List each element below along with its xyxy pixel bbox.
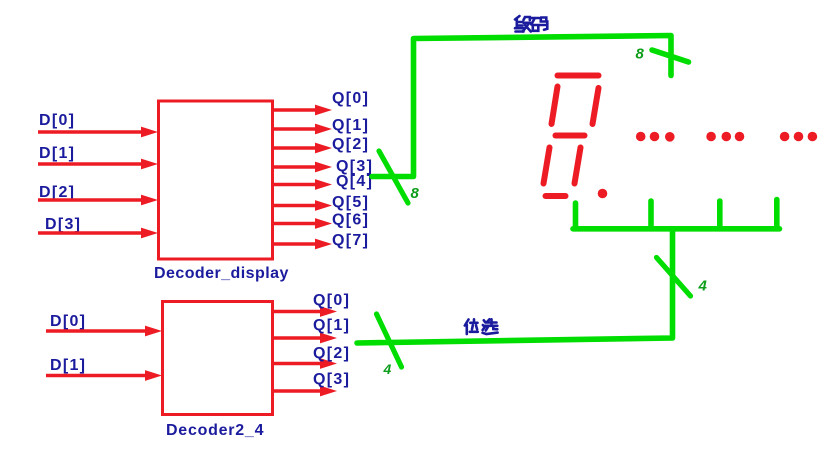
wire D[1] to U2 xyxy=(46,370,162,381)
segment C (lower right) xyxy=(575,148,581,184)
decimal point DP xyxy=(598,189,608,199)
svg-text:Q[5]: Q[5] xyxy=(332,194,369,211)
block U1 Decoder_display xyxy=(159,101,273,259)
bus width slash 4 (left) xyxy=(377,314,402,367)
svg-text:Q[7]: Q[7] xyxy=(332,232,369,249)
svg-text:D[1]: D[1] xyxy=(50,357,86,374)
segment E (lower left) xyxy=(544,148,550,184)
bus width slash 4 (right) xyxy=(657,258,691,297)
svg-text:Q[4]: Q[4] xyxy=(336,173,373,190)
seven-segment display DS1 xyxy=(544,76,599,197)
display common stub 2 xyxy=(648,201,654,229)
wire Q[2] from U1 xyxy=(274,143,332,154)
bit-select collector wire xyxy=(573,226,780,232)
wire Q[0] from U2 xyxy=(274,306,337,317)
svg-text:Q[1]: Q[1] xyxy=(313,317,350,334)
svg-text:Q[0]: Q[0] xyxy=(313,292,350,309)
segment B (upper right) xyxy=(593,88,599,124)
wire Q[6] from U1 xyxy=(274,218,332,229)
wire D[3] to U1 xyxy=(38,228,158,239)
svg-text:Q[6]: Q[6] xyxy=(332,212,369,229)
svg-text:8: 8 xyxy=(411,185,420,202)
bit-select vertical and horizontal run xyxy=(357,229,673,343)
display common stub 3 xyxy=(717,201,723,229)
svg-text:Q[2]: Q[2] xyxy=(332,136,369,153)
wire bit-select bus (U2 outputs to display commons) xyxy=(357,200,780,344)
hanzi wei xyxy=(465,319,478,334)
wire D[0] to U1 xyxy=(38,127,158,138)
svg-text:Q[2]: Q[2] xyxy=(313,345,350,362)
wire Q[2] from U2 xyxy=(274,358,337,369)
wire Q[4] from U1 xyxy=(274,179,332,190)
wire D[0] to U2 xyxy=(46,326,162,337)
svg-text:Decoder_display: Decoder_display xyxy=(154,265,289,282)
wire Q[1] from U2 xyxy=(274,333,337,344)
svg-text:D[0]: D[0] xyxy=(50,313,86,330)
hanzi ma xyxy=(531,18,547,31)
wire Q[3] from U1 xyxy=(274,162,332,173)
label bit-select net xyxy=(465,319,498,334)
svg-text:4: 4 xyxy=(383,361,392,377)
ellipsis dots group 1 (more digits) xyxy=(636,132,675,142)
wire Q[7] from U1 xyxy=(274,239,332,250)
hanzi duan xyxy=(515,16,531,32)
svg-text:Q[3]: Q[3] xyxy=(313,371,350,388)
hanzi xuan xyxy=(483,319,498,334)
ellipsis dots group 3 (more digits) xyxy=(780,132,817,142)
segment D (bottom) xyxy=(546,193,566,199)
svg-text:D[1]: D[1] xyxy=(39,145,75,162)
svg-text:Q[1]: Q[1] xyxy=(332,117,369,134)
block U2 Decoder2_4 xyxy=(163,302,273,415)
wire D[1] to U1 xyxy=(38,159,158,170)
bus width slash 8 (left) xyxy=(379,151,408,203)
label segment-code net xyxy=(515,16,547,32)
wire Q[0] from U1 xyxy=(274,105,332,116)
wire D[2] to U1 xyxy=(38,195,158,206)
display common stub 4 xyxy=(774,200,780,229)
wire Q[1] from U1 xyxy=(274,124,332,135)
display common stub 1 xyxy=(573,203,579,229)
svg-text:Decoder2_4: Decoder2_4 xyxy=(166,422,264,439)
svg-text:8: 8 xyxy=(636,46,645,63)
svg-text:D[3]: D[3] xyxy=(45,216,81,233)
segment A (top) xyxy=(558,73,599,79)
ellipsis dots group 2 (more digits) xyxy=(706,132,744,142)
svg-text:Q[0]: Q[0] xyxy=(332,90,369,107)
wire Q[5] from U1 xyxy=(274,200,332,211)
bus width slash 8 (top right) xyxy=(652,50,689,62)
wire segment-code bus (Q outputs to display) xyxy=(372,36,671,177)
segment G (middle) xyxy=(556,133,585,139)
segment F (upper left) xyxy=(552,87,558,125)
svg-text:D[0]: D[0] xyxy=(39,112,75,129)
svg-text:4: 4 xyxy=(698,278,708,295)
wire Q[3] from U2 xyxy=(274,386,337,397)
